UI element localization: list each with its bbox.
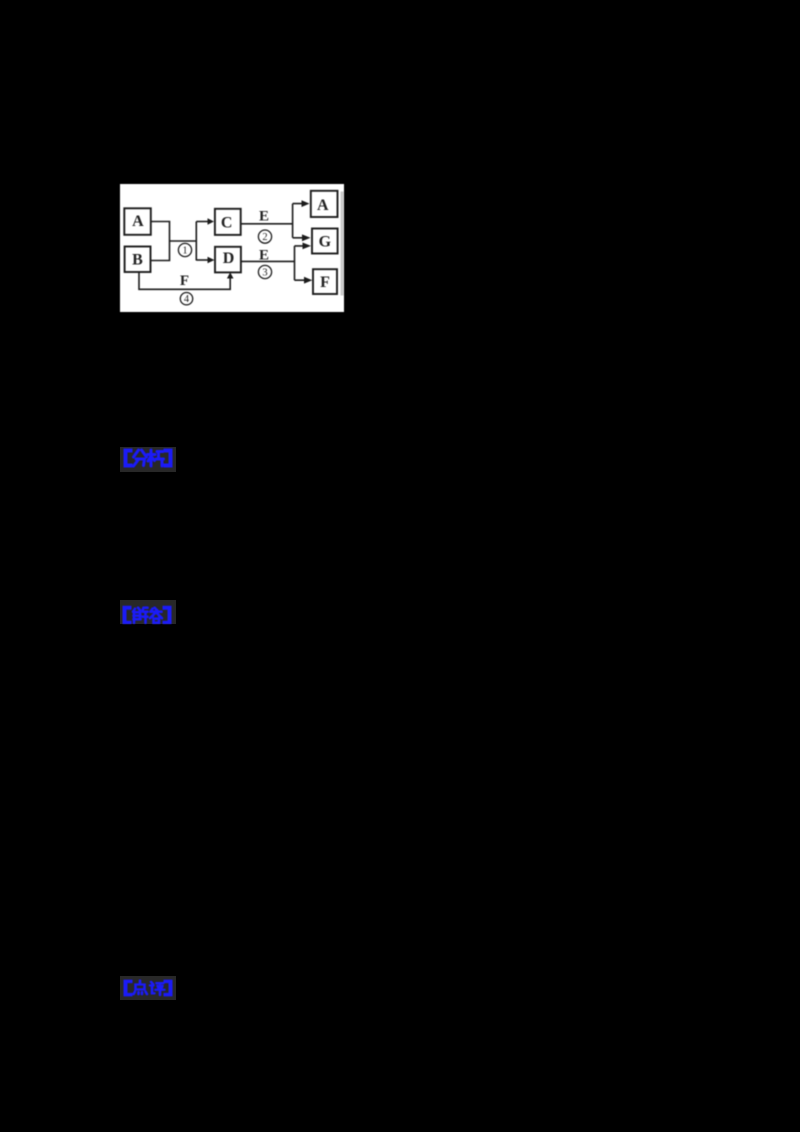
label 【解答】 (solution) xyxy=(120,600,176,624)
wire split vertical xyxy=(195,221,197,260)
white image background xyxy=(120,184,344,312)
svg-text:G: G xyxy=(319,233,332,250)
svg-text:E: E xyxy=(259,208,269,224)
svg-text:E: E xyxy=(259,247,269,263)
svg-text:1: 1 xyxy=(182,245,187,256)
wire D out xyxy=(241,245,304,279)
svg-text:C: C xyxy=(221,214,233,231)
box A right xyxy=(311,190,338,216)
arrowhead into G from C xyxy=(302,234,311,241)
wire to C xyxy=(196,220,207,222)
arrowhead into G from D xyxy=(303,242,312,249)
box G xyxy=(312,228,338,253)
box C xyxy=(215,208,241,234)
svg-text:4: 4 xyxy=(184,294,190,305)
svg-text:3: 3 xyxy=(262,267,267,278)
svg-text:A: A xyxy=(132,213,144,230)
svg-text:D: D xyxy=(223,250,235,267)
circled 1 xyxy=(178,230,271,305)
wire to D xyxy=(196,259,207,261)
svg-text:A: A xyxy=(317,196,329,213)
box A left xyxy=(124,208,151,235)
box B xyxy=(125,246,151,272)
svg-text:F: F xyxy=(320,273,330,290)
wire middle xyxy=(170,240,197,242)
diagram image (flowchart) xyxy=(120,184,344,312)
box F xyxy=(313,269,337,294)
arrowhead into right A xyxy=(302,200,310,207)
svg-text:F: F xyxy=(180,273,189,289)
scan shadow strip right edge xyxy=(341,191,344,295)
wire C out xyxy=(241,203,302,237)
svg-text:2: 2 xyxy=(262,232,267,243)
arrowhead into D xyxy=(208,256,215,263)
label 【点评】 (comment) xyxy=(120,976,176,1000)
label 【分析】 (analysis) xyxy=(120,447,176,472)
arrowhead into F xyxy=(304,276,312,283)
arrowhead into C xyxy=(208,218,215,225)
arrowhead up into D bottom xyxy=(227,272,234,278)
wire A/B merge xyxy=(151,221,170,260)
box D xyxy=(215,246,241,272)
wire F feedback xyxy=(139,272,230,289)
svg-text:B: B xyxy=(132,251,143,268)
